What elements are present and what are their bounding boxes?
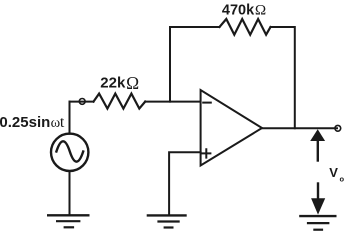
svg-text:470kΩ: 470kΩ xyxy=(222,2,266,19)
svg-text:o: o xyxy=(340,174,345,183)
svg-text:0.25sinωt: 0.25sinωt xyxy=(0,114,65,131)
svg-text:V: V xyxy=(329,165,338,180)
svg-text:22kΩ: 22kΩ xyxy=(100,73,139,93)
